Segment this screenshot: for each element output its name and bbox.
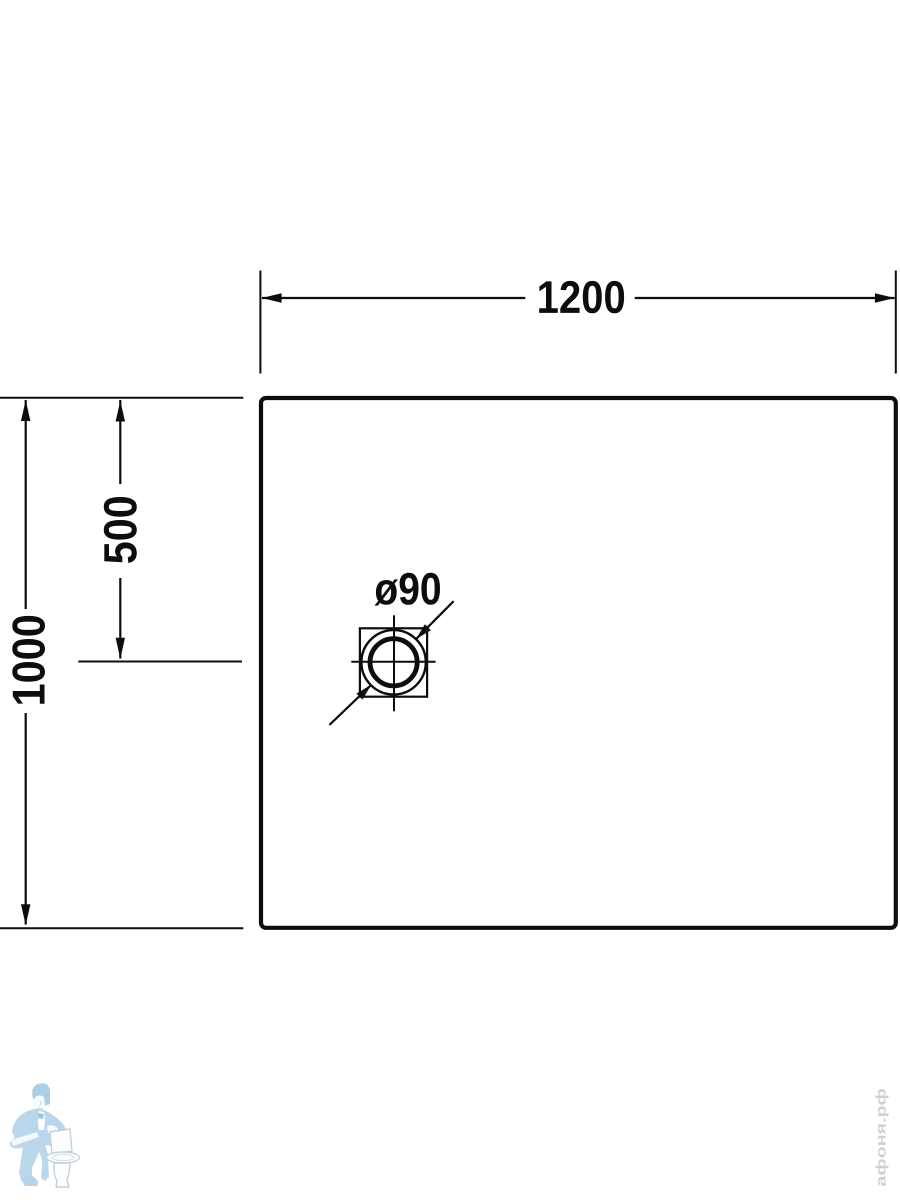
arrow right of 1200 [875, 293, 895, 302]
extension line of 500 at drain centre [78, 661, 242, 663]
extension line top of 1000 dimension [0, 397, 243, 399]
dimension line 1200 right segment [635, 297, 895, 299]
arrow left of 1200 [262, 293, 282, 302]
arrow bottom of 1000 [21, 904, 30, 925]
watermark vertical site text [876, 1089, 889, 1186]
drain outer circle [361, 630, 425, 694]
logo plumber face lines [37, 1101, 43, 1109]
extension line left of 1200 dimension [259, 271, 261, 374]
logo plumber group [10, 1083, 80, 1187]
label 1000 [12, 616, 45, 704]
drain centreline vertical [393, 615, 395, 711]
shower tray outline rectangle [261, 398, 896, 928]
label 1200 [539, 281, 624, 313]
dimension line 500 lower segment [119, 578, 121, 659]
label ø90 [374, 573, 440, 606]
diameter leader line lower left [329, 685, 371, 725]
logo plumber right hand on tank [47, 1125, 58, 1134]
logo plumber boot [23, 1175, 38, 1186]
logo plumber legs [19, 1145, 49, 1182]
logo plumber cap [32, 1083, 50, 1106]
logo plumber face [34, 1095, 44, 1111]
logo toilet base [54, 1163, 70, 1187]
logo plumber shirt stripe [38, 1111, 45, 1130]
logo toilet tank [50, 1129, 72, 1154]
diameter arrow upper right [416, 624, 431, 639]
diameter arrow lower left [356, 685, 371, 700]
extension line right of 1200 dimension [895, 271, 897, 374]
diameter leader line upper right [416, 601, 453, 639]
logo toilet seat [47, 1152, 80, 1163]
extension line bottom of 1000 dimension [0, 927, 243, 929]
drain centreline horizontal [351, 661, 435, 663]
logo plumber left arm [10, 1130, 36, 1149]
logo plumber hand pipe [11, 1132, 39, 1146]
label 500 [104, 497, 137, 563]
drain inner circle [370, 639, 417, 686]
logo plumber torso jacket [12, 1109, 67, 1149]
logo plumber bow tie [38, 1113, 44, 1119]
dimension line 500 upper segment [119, 400, 121, 484]
drain square [360, 628, 427, 696]
arrow top of 1000 [21, 400, 30, 421]
dimension line 1000 lower segment [25, 713, 27, 925]
dimension line 1200 left segment [262, 297, 525, 299]
logo toilet seat inner ring [52, 1154, 74, 1160]
arrow top of 500 [116, 401, 125, 422]
dimension line 1000 upper segment [25, 400, 27, 609]
arrow bottom of 500 [116, 638, 125, 659]
